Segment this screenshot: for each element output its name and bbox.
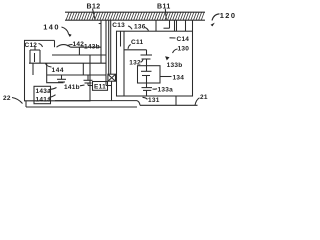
wire E11 to element E [106, 85, 112, 87]
wire pair C13 left [108, 20, 110, 74]
wire: bus drop from bar (left) [100, 20, 102, 63]
wire pair C14 right [176, 20, 178, 31]
svg-text:C12: C12 [25, 42, 38, 49]
svg-text:120: 120 [220, 11, 237, 20]
wire hook horizontal [164, 27, 170, 29]
text labels [87, 4, 171, 11]
svg-text:B12: B12 [87, 4, 101, 11]
wire vertical join [78, 47, 80, 55]
left block 140 outline [25, 40, 91, 100]
wire node c (y75) [47, 74, 107, 76]
wire stem [146, 50, 148, 55]
bottom rail taper [137, 101, 140, 106]
svg-text:C11: C11 [131, 39, 143, 46]
wire inner vertical short [120, 31, 122, 46]
svg-text:133b: 133b [167, 62, 183, 69]
inner box labels 143a/141a [34, 86, 51, 103]
svg-text:21: 21 [200, 94, 208, 101]
label 144 leader [46, 63, 52, 67]
wire node 144 (y62.8) [29, 62, 106, 64]
box 134 [138, 66, 161, 83]
wire tick on left bus drop [99, 23, 101, 25]
bottom rail 22 top edge [55, 100, 137, 102]
svg-text:143a: 143a [36, 88, 52, 95]
svg-text:C13: C13 [112, 22, 125, 29]
label 142 leader [67, 45, 73, 47]
capacitor C12 [30, 47, 40, 64]
label 22 leader [12, 98, 23, 104]
svg-text:141b: 141b [64, 84, 80, 91]
wire pair C14 left [174, 20, 176, 31]
wire bar to block 130 top (x185.5) [185, 20, 187, 31]
label 131 leader [143, 97, 148, 99]
svg-text:130: 130 [178, 45, 190, 52]
wire right edge up to bar [192, 20, 194, 31]
label 132 leader [141, 59, 144, 62]
wire stub from bar with hook (x169.5) [169, 20, 171, 28]
bottom rail 22 left end [25, 101, 27, 107]
svg-text:B11: B11 [157, 4, 171, 11]
svg-text:E11: E11 [94, 84, 106, 91]
label 120 leader arrow [211, 14, 220, 27]
svg-text:C14: C14 [177, 36, 190, 43]
label 130 leader [173, 49, 178, 53]
svg-text:144: 144 [52, 67, 65, 74]
wire stem below C12 [32, 63, 34, 75]
label C14 leader [170, 37, 176, 39]
label 136 leader [145, 28, 149, 31]
bottom rail 21 [140, 104, 198, 106]
wire: step from top edge to switch 142 [54, 40, 56, 47]
label 133a leader [153, 88, 158, 90]
capacitor 132 [141, 55, 153, 66]
svg-text:136: 136 [134, 23, 146, 30]
right block 130 outline [117, 31, 193, 96]
capacitor 141b-right [84, 75, 93, 86]
label 143a leader [49, 88, 57, 90]
label 134 leader [161, 76, 172, 78]
svg-text:143b: 143b [84, 43, 100, 50]
wire pair C13 right [110, 20, 112, 74]
svg-text:140: 140 [43, 22, 60, 31]
svg-text:132: 132 [129, 60, 141, 67]
capacitor 141b-left [57, 75, 66, 82]
wire node b (y55) [52, 54, 106, 56]
wire: bus drop from bar (second) [105, 20, 107, 85]
wire inner vertical long [123, 31, 125, 96]
wire vertical join 2 [82, 63, 84, 75]
wire node line [124, 49, 147, 51]
label 140 leader arrow [62, 27, 72, 37]
label 133b leader [165, 56, 169, 60]
svg-text:131: 131 [148, 97, 160, 104]
wire node a (y47) [71, 46, 102, 48]
label 143b leader [81, 46, 85, 48]
label C13 leader [128, 26, 132, 29]
box E11 [93, 82, 108, 91]
label 141b leader [80, 84, 85, 87]
wire block to rail 21 [175, 96, 177, 105]
element E (crossed box) [108, 74, 116, 101]
wire L connector [47, 63, 64, 82]
hatched bar 120 (fixed structure) [65, 12, 205, 20]
capacitor 133b (inside box) [141, 66, 152, 83]
switch 142 arc [57, 45, 71, 48]
svg-text:22: 22 [3, 95, 11, 102]
label C12 leader [39, 44, 43, 48]
bottom rail 22 bottom edge [26, 106, 137, 108]
svg-text:133a: 133a [158, 87, 174, 94]
label B12 leader [93, 9, 96, 20]
svg-text:141a: 141a [36, 97, 52, 104]
svg-text:134: 134 [173, 75, 185, 82]
capacitor 133a [142, 83, 153, 97]
label 21 leader [195, 98, 200, 105]
wire bar to block 130 top (x156) [155, 20, 157, 31]
svg-text:142: 142 [73, 41, 85, 48]
label 141a leader [49, 95, 56, 98]
label C11 leader [128, 45, 131, 49]
label B11 leader [165, 9, 166, 20]
